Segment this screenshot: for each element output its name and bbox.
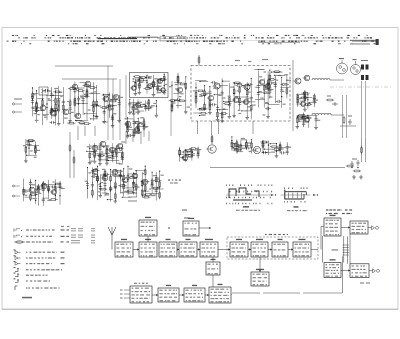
block dec2 (251, 242, 268, 257)
IF cluster d (259, 79, 264, 84)
labels above box (235, 60, 240, 61)
legend row 3 value 1 (61, 241, 64, 242)
block output bot (350, 264, 369, 278)
o2 cluster (253, 146, 260, 153)
legend row 6 text (26, 263, 28, 264)
coil diagram X2 caption (287, 210, 291, 211)
wire d drop2 (112, 79, 114, 140)
block AFC top (183, 221, 199, 236)
wire ind (259, 259, 261, 272)
connector block pair A (361, 65, 364, 70)
wire drv drop 3 (140, 131, 142, 144)
coil diagram X1 traces (229, 189, 236, 198)
legend row 1 value 5 (91, 227, 95, 230)
coil diagram X1 caption (236, 210, 240, 211)
wire v4 (365, 81, 367, 138)
legend row 3 symbol (14, 241, 25, 243)
coil diagram X1 label (243, 206, 249, 207)
wire d drop4 (125, 75, 127, 120)
wire drv drop 4 (148, 131, 150, 141)
pin numbers (361, 60, 368, 61)
wire v1 (342, 95, 344, 138)
block p2 (158, 288, 179, 302)
legend row 2 symbol (13, 235, 15, 238)
wire p4 out (231, 294, 232, 296)
legend row 1 text (26, 229, 29, 230)
legend table (326, 209, 328, 210)
IF cluster a (195, 82, 197, 108)
stage 2 cluster (72, 84, 78, 90)
ts label 1 (182, 209, 187, 210)
b-down cluster (25, 139, 27, 159)
legend row 7 symbol (14, 267, 16, 268)
title strip rule 1 (98, 38, 137, 40)
block dec3 (272, 242, 288, 257)
legend row 2 text (26, 236, 28, 237)
wire s2 drop2 (84, 126, 86, 136)
o3 cluster (262, 141, 264, 152)
legend row 2 value 2 (67, 236, 70, 237)
wire ratio (212, 257, 214, 262)
wire drv drop 2 (132, 131, 134, 142)
legend row 1 value 4 (78, 227, 83, 230)
legend row 8 symbol (14, 273, 16, 274)
legend row 2 value 3 (71, 234, 76, 237)
wire v3 (361, 81, 363, 138)
title strip underline (258, 41, 300, 43)
wire osc (147, 236, 149, 242)
driver cluster (136, 103, 141, 108)
wire sp2 (341, 270, 350, 272)
legend row 6 value 1 (61, 263, 65, 264)
wire a6 (268, 249, 272, 251)
page bottom shadow (2, 308, 398, 310)
legend row 1 value 1 (61, 229, 65, 230)
wire a2 (177, 249, 179, 251)
wire stage bus (62, 78, 117, 80)
legend row 1 value 3 (71, 227, 76, 230)
legend row 3 value 4 (91, 239, 95, 242)
coil diagram X2 label (294, 206, 299, 207)
coil diagram X1 ticks (225, 184, 228, 186)
stray mark (7, 41, 9, 42)
antenna (108, 227, 112, 235)
wire box drop 4 (252, 121, 254, 134)
title strip end block (350, 39, 378, 41)
legend header marks (61, 226, 64, 227)
mid cluster 1 (92, 145, 97, 150)
block demod (200, 242, 218, 257)
mode switch contacts (343, 244, 349, 246)
legend row 2 value 4 (78, 234, 83, 237)
legend row 5 symbol (14, 254, 16, 257)
det transistor pair (295, 78, 301, 84)
legend row 9 text (26, 280, 28, 281)
driver lower cluster (125, 121, 130, 126)
coupling cluster (177, 87, 182, 92)
input terminals J1 (12, 103, 14, 105)
legend row 3 value 3 (71, 239, 80, 242)
wire ts3-ts4 (322, 236, 324, 263)
bottom return wire (342, 256, 344, 293)
wire a3 (197, 249, 200, 251)
wire out-out (349, 234, 351, 264)
wire d drop1 (107, 66, 109, 140)
wire box drop 3 (218, 121, 220, 134)
o1 transistor (208, 145, 216, 153)
wire v2 (346, 95, 348, 138)
wire p12 (152, 294, 158, 296)
wire drv drop 1 (125, 131, 127, 144)
legend row 6 symbol (14, 261, 16, 262)
IF cluster c (244, 84, 250, 90)
title strip text row (12, 35, 376, 44)
wire box feed (198, 55, 200, 66)
block p4 (209, 287, 231, 303)
legend row 2 value 1 (61, 236, 65, 237)
wire right vert (292, 60, 294, 131)
block p1 (130, 286, 152, 303)
block osc top (139, 220, 157, 236)
coil L1 (312, 79, 330, 81)
wire box drop 2 (211, 121, 213, 135)
wire s2 drop1 (77, 126, 79, 140)
block AF amp TS3 (324, 218, 341, 236)
preamp cluster (132, 86, 137, 91)
block dec1 (230, 242, 248, 257)
wire p34 (205, 294, 209, 296)
legend row 3 value 2 (67, 241, 70, 242)
lower input cluster (29, 187, 35, 193)
title strip bracket (160, 37, 186, 42)
legend row 4 value 1 (61, 252, 65, 253)
speaker top (368, 227, 372, 229)
legend row 10 text (26, 287, 27, 288)
legend row 4 symbol (14, 250, 16, 251)
coil diagram X2 ticks (283, 187, 286, 189)
legend row 1 value 2 (67, 229, 70, 230)
legend row 5 text (26, 257, 28, 258)
IF cluster e (269, 70, 271, 99)
stereo decoder dashed box (227, 237, 318, 259)
block indicator (251, 272, 269, 286)
legend row 1 symbol (13, 229, 15, 232)
wire afc (168, 227, 169, 228)
aux input terminals (13, 185, 15, 187)
legend row 5 value 1 (61, 257, 65, 258)
feed chain (69, 132, 71, 178)
cap stack (128, 189, 137, 191)
right h parts (326, 99, 328, 101)
title strip rule 2 (128, 36, 158, 38)
legend row 10 symbol (14, 286, 16, 290)
block AF amp TS4 (324, 263, 341, 278)
stage 1 cluster (40, 105, 46, 111)
mid cluster 2 (92, 169, 97, 174)
block output top (350, 221, 368, 234)
stereo decoder label (265, 234, 267, 235)
wire a7 (288, 249, 293, 251)
mode label (332, 249, 339, 250)
agc end cluster (346, 165, 348, 167)
IF cluster b (214, 83, 220, 89)
block IF2 (179, 242, 197, 257)
speaker bot (369, 270, 373, 272)
doc number (22, 297, 32, 299)
tuner can V2 (351, 65, 361, 75)
block RF amp (115, 242, 133, 257)
right small cluster (343, 116, 345, 118)
wire box drop 1 (197, 121, 199, 134)
wire to amp (311, 249, 318, 251)
q1 ticks (168, 179, 170, 180)
legend row 2 value 5 (91, 234, 95, 237)
tuner can V1 (337, 63, 348, 74)
wire a4 (218, 249, 230, 251)
fig label (360, 282, 364, 283)
det cluster (301, 102, 306, 107)
block p1 label (134, 283, 137, 284)
block dec4 (293, 242, 311, 257)
legend row 3 text (26, 241, 30, 242)
agc wire (210, 167, 345, 169)
block IF1 (159, 242, 177, 257)
centerline (330, 86, 392, 88)
wire p23 (179, 294, 184, 296)
wire cpl drop (170, 104, 172, 136)
wire a5 (248, 249, 251, 251)
dashed IF box (191, 66, 290, 122)
coil diagram X2 loop (284, 190, 286, 200)
mode switch rails (343, 236, 345, 262)
preamp box (130, 73, 169, 98)
legend row 9 symbol (14, 278, 16, 279)
wire top bus (55, 65, 113, 67)
connector block pair B (361, 75, 364, 80)
legend row 4 text (26, 252, 27, 253)
legend row 7 text (26, 269, 29, 270)
wire d drop3 (119, 79, 121, 140)
wire s2 drop3 (94, 126, 96, 136)
stage 3 cluster (103, 96, 109, 102)
block mixer (139, 242, 157, 257)
coil L2 (312, 113, 331, 115)
shield box (39, 87, 48, 95)
n cluster (182, 155, 187, 160)
wire sp1 (341, 227, 350, 229)
block ratio det (206, 262, 220, 275)
wire a1 (133, 249, 139, 251)
legend row 8 text (26, 275, 29, 276)
block p3 (184, 288, 205, 302)
out cluster (298, 115, 303, 120)
